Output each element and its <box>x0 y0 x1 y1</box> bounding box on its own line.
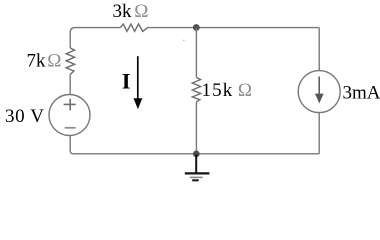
current arrow I (downward, middle-left) <box>137 56 139 99</box>
ground (below bottom junction) <box>195 154 197 172</box>
voltage source V1 30V (circle) <box>49 95 90 136</box>
wire: right branch top (corner to current source) <box>318 28 320 71</box>
svg-text:7kΩ: 7kΩ <box>27 51 62 72</box>
svg-text:I: I <box>122 69 131 94</box>
resistor R 3k (zigzag on top wire) <box>120 24 147 31</box>
wire: 7k resistor to voltage source top <box>69 75 71 95</box>
svg-text:3kΩ: 3kΩ <box>113 1 149 22</box>
svg-text:3mA: 3mA <box>343 83 380 104</box>
wire: middle branch bottom (15k to bottom junction) <box>195 102 197 154</box>
resistor R 15k (vertical zigzag, middle branch) <box>192 78 200 102</box>
node: bottom junction dot <box>193 151 200 158</box>
wire: top-left corner + top wire left segment to 3k resistor <box>70 28 120 48</box>
wire: voltage source bottom to bottom-left corner and bottom wire <box>70 135 319 154</box>
minus sign inside source <box>65 127 76 129</box>
plus sign inside source <box>64 99 76 111</box>
stray speck (scan artifact) <box>183 40 185 42</box>
node: top junction dot <box>193 24 200 31</box>
arrow inside current source (downward) <box>318 77 320 95</box>
wire: current source bottom to bottom-right corner <box>318 113 320 154</box>
current source I1 3mA (circle) <box>298 71 340 113</box>
wire: top wire from 3k resistor to top-right corner <box>148 27 320 29</box>
wire: middle branch top (junction to 15k) <box>195 28 197 78</box>
resistor R 7k (vertical zigzag, left branch) <box>66 48 74 75</box>
svg-text:15kΩ: 15kΩ <box>202 80 254 101</box>
svg-text:30 V: 30 V <box>5 106 45 127</box>
